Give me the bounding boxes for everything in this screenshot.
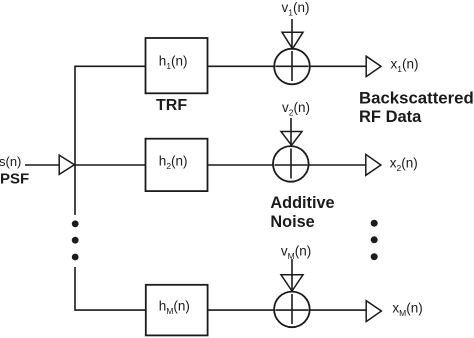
wire h1 box to summer 1 [208,65,275,67]
wire summer 2 to output arrow 2 [309,164,367,166]
wire s(n) to splitter [25,164,59,166]
filter block h2(n) [146,139,208,191]
ellipsis dots left [72,220,79,260]
arrowhead down vM [281,275,303,291]
svg-text:PSF: PSF [0,171,29,188]
wire summer M to output arrow M [310,309,367,311]
svg-text:RF Data: RF Data [359,108,422,126]
wire summer 1 to output arrow 1 [310,65,366,67]
wire h2 box to summer 2 [208,164,274,166]
filter block h1(n) [146,38,208,93]
svg-text:x2(n): x2(n) [390,156,418,174]
svg-text:h2(n): h2(n) [159,153,188,171]
vertical bus lower segment [75,267,146,310]
output arrowhead xM [366,301,381,322]
wire hM box to summer M [208,309,274,311]
wire vM down into summer M [291,259,293,291]
svg-text:Additive: Additive [270,194,334,212]
svg-text:xM(n): xM(n) [392,301,422,319]
svg-text:hM(n): hM(n) [159,299,190,317]
svg-text:TRF: TRF [156,97,187,114]
summing junction U3 [274,292,310,328]
filter block hM(n) [146,285,208,336]
svg-text:s(n): s(n) [0,154,21,169]
node s(n) input label [0,154,29,188]
wire bus to h2 box [75,164,146,166]
summing junction U2 [273,146,309,182]
svg-text:vM(n): vM(n) [281,243,311,261]
svg-text:x1(n): x1(n) [391,57,419,75]
wire v1 down into summer 1 [291,19,293,49]
arrowhead down v1 [282,32,303,49]
wire v2 down into summer 2 [290,118,292,145]
vertical bus upper segment [75,66,146,215]
output arrowhead x1 [366,56,381,76]
svg-text:Noise: Noise [270,213,314,231]
summing junction U1 [274,49,310,85]
svg-text:v1(n): v1(n) [282,0,310,18]
svg-text:h1(n): h1(n) [159,53,188,71]
label Backscattered RF Data [359,89,474,126]
arrowhead down v2 [281,132,302,146]
svg-text:Backscattered: Backscattered [359,89,474,108]
output arrowhead x2 [366,154,381,175]
label Additive Noise [270,194,334,231]
ellipsis dots right [371,220,378,261]
svg-text:v2(n): v2(n) [282,100,310,118]
splitter buffer triangle [59,155,74,174]
